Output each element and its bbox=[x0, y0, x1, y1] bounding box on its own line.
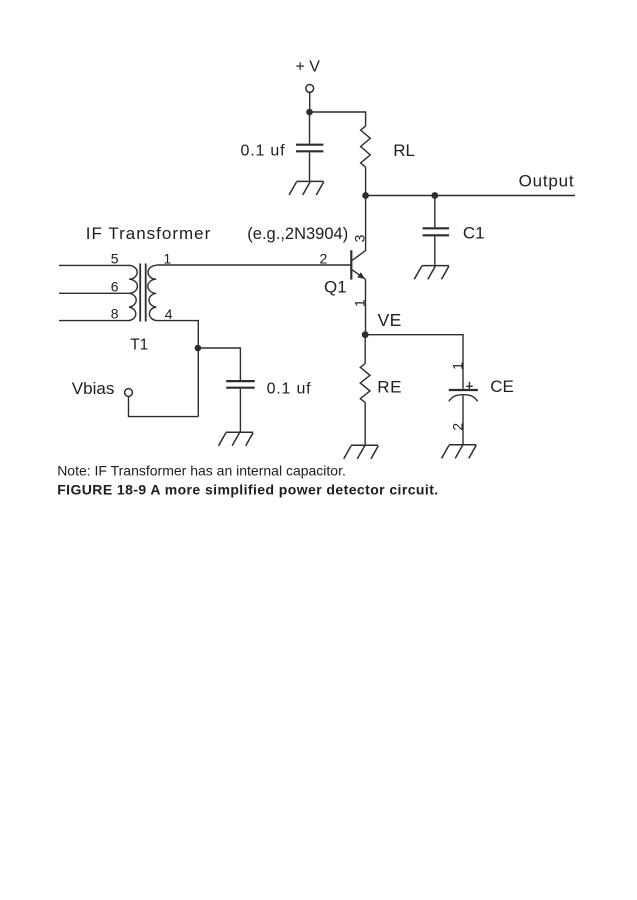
wire bbox=[309, 92, 311, 112]
wire bbox=[310, 112, 366, 126]
wire base bbox=[156, 264, 350, 266]
junction pin4 node bbox=[195, 345, 202, 352]
wire bbox=[365, 167, 367, 195]
ground bbox=[289, 181, 324, 195]
svg-text:RE: RE bbox=[377, 378, 402, 397]
ground bbox=[442, 445, 477, 459]
ground bbox=[414, 266, 449, 280]
svg-text:RL: RL bbox=[393, 141, 415, 160]
svg-text:VE: VE bbox=[378, 310, 402, 330]
svg-text:Vbias: Vbias bbox=[72, 379, 115, 398]
svg-text:1: 1 bbox=[449, 362, 465, 370]
transformer T1 core bbox=[140, 264, 146, 322]
ground bbox=[344, 445, 379, 459]
svg-text:4: 4 bbox=[165, 306, 173, 322]
svg-text:CE: CE bbox=[490, 377, 514, 396]
svg-text:5: 5 bbox=[111, 251, 119, 267]
wire bbox=[239, 389, 241, 432]
svg-text:2: 2 bbox=[450, 423, 466, 431]
wire pin8 bbox=[59, 320, 130, 322]
svg-text:Q1: Q1 bbox=[324, 277, 347, 296]
svg-text:Output: Output bbox=[519, 171, 575, 190]
wire bbox=[434, 236, 436, 265]
wire pin5 bbox=[59, 264, 130, 266]
svg-text:0.1 uf: 0.1 uf bbox=[267, 381, 312, 398]
svg-text:1: 1 bbox=[163, 251, 171, 267]
svg-text:6: 6 bbox=[111, 279, 119, 295]
wire bbox=[364, 335, 366, 364]
wire emitter bbox=[365, 279, 367, 335]
svg-text:2: 2 bbox=[320, 251, 328, 267]
svg-text:3: 3 bbox=[352, 234, 368, 242]
junction VE node bbox=[362, 331, 369, 338]
terminal Vbias bbox=[125, 389, 133, 397]
transistor Q1 bbox=[351, 250, 366, 279]
wire pin6 bbox=[59, 292, 130, 294]
capacitor 0.1uf bottom bbox=[226, 381, 255, 388]
svg-text:8: 8 bbox=[111, 306, 119, 322]
junction +V node bbox=[306, 109, 313, 116]
wire bbox=[434, 196, 436, 228]
wire bbox=[309, 152, 311, 181]
junction collector node bbox=[362, 192, 369, 199]
capacitor C1 bbox=[423, 228, 449, 235]
svg-text:(e.g.,2N3904): (e.g.,2N3904) bbox=[247, 225, 348, 243]
wire bbox=[309, 112, 311, 144]
wire pin4 down bbox=[156, 321, 198, 417]
ground bbox=[219, 432, 254, 446]
transformer T1 primary winding bbox=[129, 265, 137, 320]
wire bbox=[462, 396, 464, 445]
resistor RE bbox=[360, 364, 370, 403]
svg-text:+ V: + V bbox=[296, 58, 321, 75]
wire bbox=[365, 335, 463, 389]
svg-text:IF Transformer: IF Transformer bbox=[86, 224, 211, 243]
svg-text:FIGURE 18-9 A more simplified: FIGURE 18-9 A more simplified power dete… bbox=[57, 482, 438, 498]
wire collector bbox=[365, 196, 367, 251]
capacitor CE electrolytic bbox=[449, 382, 478, 402]
capacitor 0.1uf top bbox=[296, 145, 323, 152]
junction C1 node bbox=[431, 192, 438, 199]
terminal +V bbox=[306, 85, 314, 93]
wire to bypass cap bbox=[198, 348, 241, 380]
wire output line bbox=[366, 195, 575, 197]
wire bbox=[364, 403, 366, 445]
svg-text:T1: T1 bbox=[130, 336, 148, 353]
wire Vbias bbox=[129, 397, 199, 417]
svg-text:0.1 uf: 0.1 uf bbox=[241, 143, 286, 160]
svg-text:Note: IF Transformer has an in: Note: IF Transformer has an internal cap… bbox=[57, 462, 346, 478]
svg-text:C1: C1 bbox=[463, 223, 485, 242]
resistor RL bbox=[361, 126, 371, 167]
transformer T1 secondary winding bbox=[148, 265, 156, 320]
